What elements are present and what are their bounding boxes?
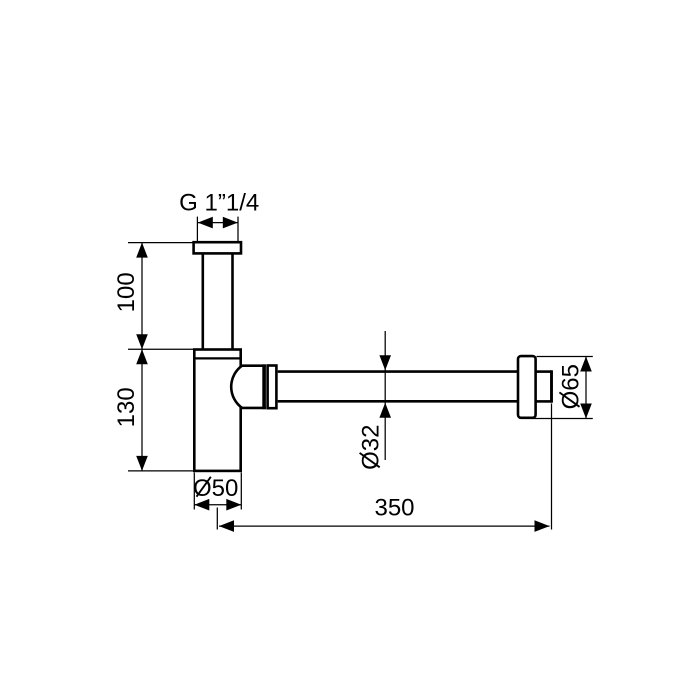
svg-text:O65: O65 [557, 364, 584, 409]
svg-text:350: 350 [374, 495, 414, 522]
svg-text:100: 100 [113, 272, 140, 312]
svg-text:O50: O50 [193, 475, 238, 502]
svg-text:O32: O32 [358, 425, 385, 470]
svg-text:130: 130 [113, 387, 140, 427]
svg-text:G 1”1/4: G 1”1/4 [179, 190, 259, 217]
